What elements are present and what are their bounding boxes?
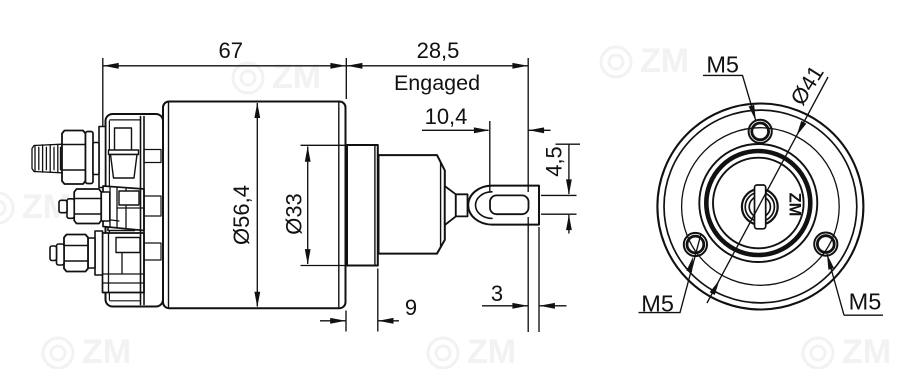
svg-text:M5: M5 [641, 291, 674, 317]
bottom bracket [103, 233, 145, 293]
clevis outer [468, 186, 539, 225]
ring outer [699, 144, 817, 262]
svg-text:28,5: 28,5 [417, 38, 460, 63]
middle washer [67, 199, 74, 219]
M5 hole top [749, 120, 772, 143]
svg-text:10,4: 10,4 [425, 104, 468, 129]
svg-text:ZM: ZM [272, 58, 321, 96]
dim D33 line [307, 147, 309, 265]
svg-text:Engaged: Engaged [394, 71, 480, 95]
top washer 2 [93, 143, 99, 175]
rear cap inner line [109, 120, 140, 301]
svg-text:ZM: ZM [467, 333, 516, 369]
front housing [379, 155, 445, 254]
bottom hex nut [64, 235, 88, 272]
M5 bottom-right leader [827, 254, 883, 315]
svg-text:67: 67 [218, 38, 242, 63]
3 arrows [512, 303, 528, 309]
bottom washer [57, 244, 65, 265]
arrows D41 [794, 121, 806, 137]
svg-text:Ø33: Ø33 [282, 193, 307, 235]
4,5 arrows [566, 179, 572, 195]
dim 3 extensions [528, 217, 539, 332]
67 arrows [103, 63, 119, 69]
leaders front view [639, 75, 884, 315]
dim 4,5 [556, 144, 581, 233]
dimension texts left view [218, 38, 566, 320]
9 arrows [330, 318, 346, 324]
arrow M5 bottom-left [686, 256, 696, 272]
D56 arrows [254, 103, 260, 119]
clevis slot [490, 195, 529, 214]
dim 28,5 line [347, 65, 528, 67]
ring thick [706, 151, 810, 255]
cap internal mid hex [108, 194, 135, 231]
main body [163, 102, 346, 309]
body seam right [338, 103, 340, 308]
M5 top label leader [703, 75, 756, 120]
bottom stud tip [50, 246, 57, 261]
M5 bottom-left leader [639, 234, 702, 313]
terminal pad top [99, 127, 106, 188]
M5 hole lower-right [814, 233, 837, 256]
svg-text:M5: M5 [849, 289, 882, 315]
flange [347, 145, 378, 266]
shaft [456, 194, 468, 216]
svg-text:4,5: 4,5 [542, 146, 567, 177]
dim 9 line [320, 320, 399, 322]
svg-text:3: 3 [491, 281, 503, 306]
boss circles [742, 189, 778, 225]
top washer 1 [86, 132, 94, 184]
dim 4,5 slot extensions [541, 195, 577, 214]
ring inner [713, 158, 804, 249]
top hex nut [62, 131, 86, 185]
body seam left [168, 103, 170, 308]
top stud thread [32, 144, 62, 173]
dim D56 line [256, 103, 258, 307]
front view labels [641, 52, 881, 317]
dim 67 line [103, 65, 345, 67]
svg-text:9: 9 [405, 295, 417, 320]
cone [445, 186, 456, 225]
bolt circle [682, 128, 840, 286]
flange seam [374, 145, 376, 266]
diameter 41 line [707, 77, 828, 303]
arrowheads left view [103, 63, 572, 324]
middle stud tip [59, 200, 67, 212]
cap internal cup [109, 150, 139, 155]
cap internal rect [113, 234, 140, 250]
10,4 arrows [474, 127, 490, 133]
D33 arrows [305, 146, 311, 162]
housing face seam [440, 162, 442, 247]
svg-text:ZM: ZM [842, 333, 891, 369]
middle washer2 [101, 192, 110, 221]
cap stud feedthroughs [144, 150, 161, 163]
svg-text:Ø56,4: Ø56,4 [229, 185, 254, 245]
dim 9 extensions [346, 269, 378, 332]
middle bracket [103, 186, 144, 231]
bottom pad [95, 231, 103, 275]
cap internal small tab top [115, 128, 132, 152]
svg-text:M5: M5 [706, 52, 739, 78]
rear cap [106, 114, 164, 307]
arrow M5 bottom-right [824, 253, 834, 269]
clevis socket arc [476, 192, 493, 219]
middle hex nut [74, 189, 101, 224]
flange outer circle [657, 104, 863, 310]
dim 10,4 line [422, 129, 551, 131]
28,5 arrows [347, 63, 363, 69]
dim D33 ticks [301, 145, 348, 265]
flange inner circle [664, 110, 857, 303]
dim 28,5 right extension [527, 58, 529, 192]
dim 3 line [482, 305, 567, 307]
svg-text:ZM: ZM [786, 193, 804, 217]
arrow M5 top [749, 105, 759, 122]
cap internal low block [108, 252, 132, 273]
svg-text:ZM: ZM [82, 333, 131, 369]
dim 10,4 left extension [489, 121, 491, 192]
boss slot [755, 185, 766, 229]
rear cap seam [141, 117, 145, 305]
M5 hole lower-left [684, 233, 707, 256]
dim 67 extension lines [103, 58, 346, 126]
svg-text:ZM: ZM [640, 42, 689, 80]
bottom washer2 [88, 238, 95, 268]
